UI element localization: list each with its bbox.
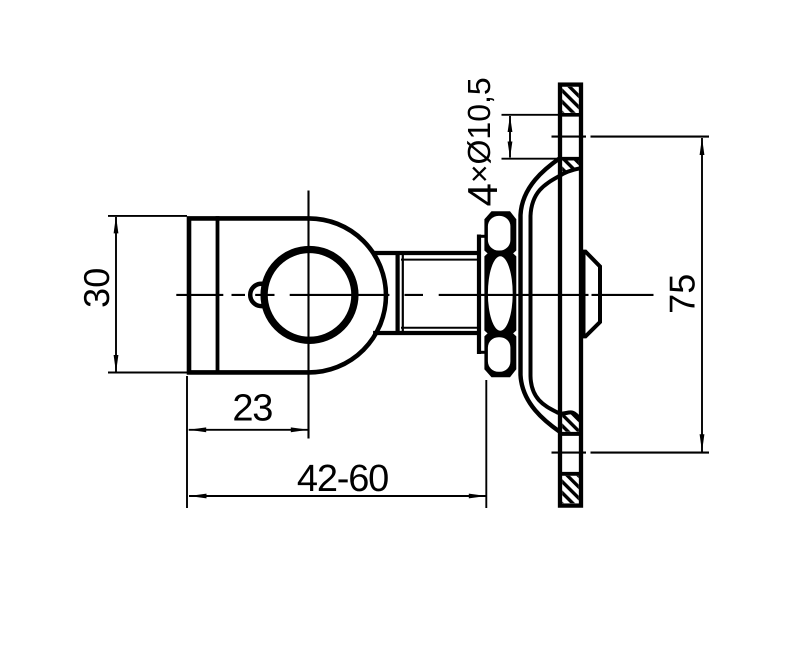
hole dimension arrow top	[508, 116, 513, 133]
hex nut bottom facet	[488, 337, 511, 372]
dimension 42-60 arrow right	[469, 494, 487, 499]
svg-text:23: 23	[232, 387, 272, 429]
dimension 75 arrow top	[700, 138, 705, 156]
hole dimension line	[509, 116, 511, 158]
clamp body inner edge	[216, 216, 220, 374]
washer plate left edge	[477, 235, 481, 355]
flange small hatch below top hole	[562, 160, 579, 175]
set screw circle	[250, 284, 272, 306]
hex nut facet pinch notch upper left	[484, 250, 488, 257]
vertical center line	[307, 191, 309, 439]
mounting hole top upper edge	[558, 113, 583, 117]
bell housing outer profile	[521, 158, 561, 432]
dimension 75 arrow bottom	[700, 434, 705, 452]
dimension 75 line	[701, 138, 703, 452]
dimension 23 extension line left	[186, 376, 188, 508]
horizontal center line	[176, 294, 653, 296]
dimension 30 extension line bottom	[108, 372, 187, 374]
dimension 30 arrow bottom	[114, 355, 119, 373]
bottom hole axis line	[552, 452, 710, 454]
shaft top inner line	[401, 259, 478, 261]
mounting hole top lower edge	[558, 157, 583, 161]
shaft bottom inner line	[401, 327, 478, 329]
flange plate	[560, 85, 581, 506]
dimension 30 extension line top	[108, 215, 187, 217]
hex nut middle facet	[488, 256, 513, 330]
svg-text:30: 30	[76, 268, 117, 308]
dimension 42-60 extension line right	[485, 380, 487, 508]
shaft top outer line	[373, 251, 478, 255]
flange small hatch above bottom hole	[562, 413, 579, 432]
washer plate bottom edge	[477, 351, 486, 354]
dimension 23 arrow right	[291, 427, 309, 432]
hex nut top facet	[488, 216, 511, 251]
hole dimension arrow bottom	[508, 142, 513, 159]
ball socket ring	[264, 250, 355, 341]
flange section hatch bottom block	[562, 476, 579, 504]
svg-text:42-60: 42-60	[297, 458, 388, 500]
flange section hatch top block	[562, 87, 579, 113]
mounting hole bottom upper edge	[558, 432, 583, 436]
clamp body outline	[189, 218, 386, 372]
washer plate top edge	[477, 235, 486, 238]
svg-text:75: 75	[662, 274, 703, 314]
flange boss	[584, 252, 601, 337]
hex nut facet pinch notch upper right	[513, 250, 517, 257]
bell housing inner profile	[531, 168, 581, 420]
dimension 23 arrow left	[189, 427, 207, 432]
hex nut body	[484, 211, 516, 377]
shaft collar line	[402, 251, 404, 335]
dimension 23 line	[189, 429, 309, 431]
dimension 30 arrow top	[114, 216, 119, 234]
hole dimension extension line bottom	[502, 158, 559, 160]
hex nut facet pinch notch lower right	[513, 330, 517, 337]
hole dimension extension line top	[502, 114, 559, 116]
dimension 30 line	[115, 217, 117, 372]
dimension 42-60 arrow left	[189, 494, 207, 499]
shaft bottom outer line	[373, 331, 478, 335]
shaft left end line	[396, 251, 400, 335]
hex nut facet pinch notch lower left	[484, 330, 488, 337]
mounting hole bottom lower edge	[558, 472, 583, 476]
dimension 42-60 line	[189, 495, 486, 497]
top hole axis line	[552, 136, 710, 138]
